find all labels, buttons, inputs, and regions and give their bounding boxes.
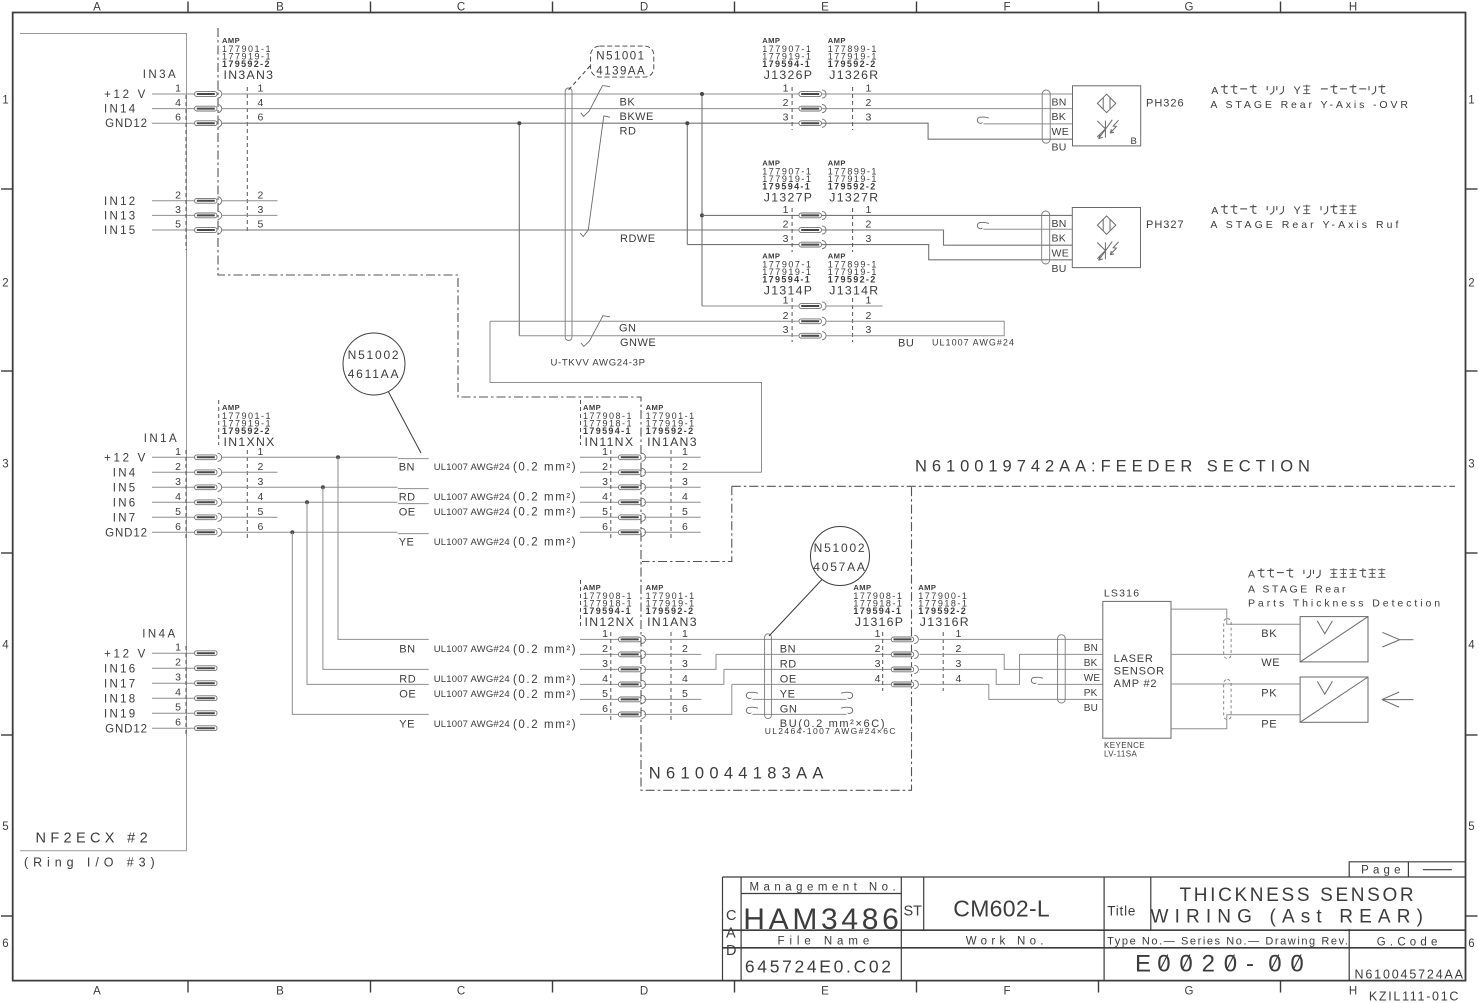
PH327 Japanese description <box>1211 205 1356 218</box>
svg-text:A: A <box>93 986 101 998</box>
wire stub IN13 <box>222 214 278 216</box>
wire J1327 pin3 to PH327 BU <box>687 245 1072 260</box>
svg-text:1: 1 <box>682 446 688 458</box>
connector IN1AN3 (lower) label stack <box>646 583 698 629</box>
harness box notch (dash-dot) <box>642 486 732 561</box>
wire RDWE (IN15) to PH327 WE <box>222 230 1073 245</box>
received beam arrow <box>1382 692 1414 707</box>
svg-text:BU: BU <box>898 338 914 350</box>
svg-text:4: 4 <box>956 673 962 685</box>
svg-text:3: 3 <box>2 458 8 470</box>
svg-text:6: 6 <box>258 112 264 124</box>
svg-text:UL1007 AWG#24: UL1007 AWG#24 <box>434 689 510 700</box>
svg-text:AMP #2: AMP #2 <box>1114 678 1158 690</box>
svg-text:IN1A: IN1A <box>144 433 179 445</box>
svg-text:2: 2 <box>1202 951 1215 978</box>
wire BN to J1316 pin1 <box>644 638 891 640</box>
svg-text:BK: BK <box>1052 111 1067 123</box>
connector IN3AN3 label stack <box>222 36 274 82</box>
cable N51002 4611AA balloon <box>343 333 421 453</box>
svg-text:A STAGE Rear Y-Axis Ruf: A STAGE Rear Y-Axis Ruf <box>1210 219 1401 231</box>
svg-text:1: 1 <box>783 295 789 307</box>
svg-text:3: 3 <box>783 324 789 336</box>
svg-text:A: A <box>93 2 101 14</box>
svg-text:BN: BN <box>1052 218 1067 230</box>
svg-text:(Ring I/O #3): (Ring I/O #3) <box>24 856 160 870</box>
svg-text:(0.2 mm²): (0.2 mm²) <box>513 492 577 504</box>
svg-text:RD: RD <box>399 673 416 685</box>
J1316 cable wire labels <box>765 643 897 735</box>
svg-text:E: E <box>821 986 829 998</box>
LS316 output wire WE <box>1171 654 1300 669</box>
svg-text:5: 5 <box>682 688 688 700</box>
svg-text:RD: RD <box>780 658 797 670</box>
rail IN6 to IN12NX pin4 <box>307 502 429 684</box>
svg-text:PK: PK <box>1261 687 1277 699</box>
connector IN4A dashed separator <box>185 646 187 736</box>
connector J1327 dashed separators <box>792 208 853 252</box>
wire J1314 pin1 stub <box>827 305 883 307</box>
connector IN1A pin contacts <box>195 453 222 536</box>
connector IN1XNX label stack <box>219 400 276 449</box>
svg-text:+12 V: +12 V <box>104 453 148 465</box>
connector J1314 pin numbers <box>783 295 872 337</box>
svg-text:H: H <box>1349 986 1357 998</box>
svg-text:WE: WE <box>1261 657 1280 669</box>
connector IN3A header <box>143 69 178 81</box>
svg-text:IN12: IN12 <box>104 196 138 208</box>
svg-text:6: 6 <box>2 938 8 950</box>
svg-text:1: 1 <box>956 628 962 640</box>
connector J1314R label stack <box>828 251 880 297</box>
svg-text:UL1007 AWG#24: UL1007 AWG#24 <box>434 537 510 548</box>
svg-text:3: 3 <box>682 658 688 670</box>
svg-text:PH327: PH327 <box>1146 219 1185 231</box>
svg-text:GND12: GND12 <box>105 724 148 736</box>
harness boundary N51002-4611AA (dash-dot) <box>218 28 912 790</box>
ruler column letters top <box>93 2 1357 14</box>
svg-text:J1326R: J1326R <box>829 68 879 82</box>
svg-text:3: 3 <box>866 233 872 245</box>
wire J1327 pin1 feed <box>702 214 1072 216</box>
svg-text:Type No.— Series No.— Drawing: Type No.— Series No.— Drawing Rev. <box>1107 936 1349 948</box>
svg-text:6: 6 <box>602 703 608 715</box>
connector IN11NX pin numbers <box>602 446 688 533</box>
svg-text:BN: BN <box>399 643 415 655</box>
cable N51002-4057AA sheath oval <box>765 634 772 719</box>
svg-text:OE: OE <box>399 688 416 700</box>
svg-text:1: 1 <box>682 628 688 640</box>
svg-text:4139AA: 4139AA <box>596 65 646 77</box>
svg-text:E: E <box>821 2 829 14</box>
svg-text:1: 1 <box>175 446 181 458</box>
LS316 maker label KEYENCE LV-11SA <box>1104 741 1145 759</box>
wire RD (IN5) <box>222 485 619 489</box>
svg-text:4: 4 <box>258 97 264 109</box>
svg-text:U-TKVV AWG24-3P: U-TKVV AWG24-3P <box>551 358 646 369</box>
svg-text:G: G <box>1185 2 1194 14</box>
svg-text:(0.2 mm²): (0.2 mm²) <box>513 689 577 701</box>
svg-text:0: 0 <box>1268 951 1281 978</box>
ruler column ticks top <box>188 2 1281 13</box>
svg-text:(0.2 mm²): (0.2 mm²) <box>513 537 577 549</box>
svg-text:UL1007 AWG#24: UL1007 AWG#24 <box>434 674 510 685</box>
connector IN12NX dashed separators <box>611 632 671 721</box>
sensor PH326 reference label <box>1146 98 1185 110</box>
connector IN3A pin numbers <box>175 83 263 231</box>
wire J1314 pin1 feed <box>702 305 799 307</box>
svg-text:D: D <box>726 943 736 959</box>
svg-text:YE: YE <box>399 536 415 548</box>
LS316 reference label <box>1104 587 1140 599</box>
svg-text:IN11NX: IN11NX <box>585 435 635 449</box>
connector J1316R label stack <box>918 583 970 629</box>
PH326 English description <box>1210 99 1410 111</box>
svg-text:N51002: N51002 <box>814 541 867 555</box>
svg-text:+12 V: +12 V <box>104 649 148 661</box>
svg-text:A: A <box>1211 205 1218 217</box>
connector J1327 pin numbers <box>783 204 872 245</box>
svg-text:6: 6 <box>682 703 688 715</box>
svg-text:B: B <box>276 2 284 14</box>
G.Code header <box>1377 937 1442 949</box>
svg-text:A: A <box>726 926 736 942</box>
connector IN12NX pin numbers <box>602 628 688 715</box>
svg-text:4: 4 <box>875 673 881 685</box>
svg-text:3: 3 <box>866 112 872 124</box>
drawing title text <box>1151 885 1430 927</box>
svg-text:OE: OE <box>399 506 416 518</box>
svg-text:IN18: IN18 <box>104 694 138 706</box>
svg-text:4: 4 <box>2 639 9 651</box>
svg-text:1: 1 <box>602 628 608 640</box>
IN1AN3 upper right stubs <box>644 457 762 532</box>
svg-text:2: 2 <box>875 643 881 655</box>
rail IN5 to IN12NX pin3 <box>323 487 429 669</box>
svg-text:IN17: IN17 <box>104 679 138 691</box>
svg-text:IN4: IN4 <box>113 468 138 480</box>
svg-text:WE: WE <box>1052 126 1070 138</box>
svg-text:N610019742AA:FEEDER SECTION: N610019742AA:FEEDER SECTION <box>915 458 1315 476</box>
connector J1316P label stack <box>853 583 904 629</box>
svg-text:RDWE: RDWE <box>620 233 656 245</box>
svg-text:2: 2 <box>258 189 264 201</box>
wire OE jog up into J1316 pin3 <box>644 669 891 684</box>
svg-text:Y: Y <box>1294 85 1302 97</box>
wire J1316 pin3 to LS316 BK <box>920 654 1103 684</box>
rail GND12 to IN12NX pin6 <box>292 532 428 714</box>
svg-text:HAM3486: HAM3486 <box>743 903 902 936</box>
svg-text:YE: YE <box>399 718 415 730</box>
svg-text:D: D <box>640 2 648 14</box>
svg-text:2: 2 <box>258 461 264 473</box>
GND12 rail down to J1327 pin3 <box>685 121 689 244</box>
connector J1327 pin contacts <box>799 211 826 248</box>
svg-text:BK: BK <box>1261 628 1277 640</box>
svg-text:1: 1 <box>175 642 181 654</box>
svg-text:4: 4 <box>175 97 181 109</box>
+12V rail down to J1327/J1314 pin1 <box>700 92 704 306</box>
svg-text:J1316P: J1316P <box>855 615 904 629</box>
svg-text:5: 5 <box>175 702 181 714</box>
svg-text:OE: OE <box>780 673 797 685</box>
svg-text:(0.2 mm²): (0.2 mm²) <box>513 719 577 731</box>
connector J1326 dashed separators <box>792 87 853 130</box>
svg-text:BU: BU <box>1084 703 1099 714</box>
svg-text:3: 3 <box>258 476 264 488</box>
connector J1326P label stack <box>762 36 813 82</box>
svg-text:4: 4 <box>1468 639 1475 651</box>
shield oval PK/PE (dashed) <box>1224 680 1231 720</box>
thickness detection Japanese description <box>1248 568 1385 580</box>
svg-text:WIRING (Ast REAR): WIRING (Ast REAR) <box>1151 906 1430 927</box>
sensor PH327 wire oval <box>1042 211 1050 264</box>
wire J1316 pin4 to LS316 BU <box>920 684 1103 699</box>
svg-text:C: C <box>726 908 736 924</box>
svg-text:A STAGE Rear: A STAGE Rear <box>1248 583 1348 595</box>
FEEDER SECTION boundary (dash-dot) <box>732 485 1455 487</box>
svg-text:3: 3 <box>602 476 608 488</box>
Title cell <box>1107 904 1136 919</box>
LS316 output wire PE <box>1171 715 1300 731</box>
svg-text:6: 6 <box>682 521 688 533</box>
sensor PH326 body <box>1073 86 1141 147</box>
stub IN1AN3 lower pin2 <box>644 653 701 655</box>
cable label U-TKVV AWG24-3P <box>551 358 646 369</box>
sensor PH327 cut wire into BK <box>977 222 1072 229</box>
svg-text:2: 2 <box>783 219 789 231</box>
svg-text:4: 4 <box>175 687 181 699</box>
page box <box>1349 862 1465 877</box>
svg-text:2: 2 <box>783 310 789 322</box>
svg-text:B: B <box>1131 136 1137 147</box>
drawing number E0020-00 <box>1135 951 1304 978</box>
connector IN12NX pin contacts <box>619 635 646 718</box>
svg-text:J1327R: J1327R <box>829 190 879 204</box>
svg-text:2: 2 <box>175 461 181 473</box>
svg-text:N51001: N51001 <box>596 51 645 63</box>
svg-text:BK: BK <box>620 96 636 108</box>
connector J1327R label stack <box>828 158 880 204</box>
connector J1316 pin numbers <box>875 628 962 685</box>
ruler column letters bottom <box>93 986 1357 998</box>
ST cell <box>904 904 923 920</box>
svg-text:LV-11SA: LV-11SA <box>1104 750 1137 759</box>
sensor PH326 wire slot labels <box>1052 96 1070 153</box>
svg-text:IN1AN3: IN1AN3 <box>647 435 698 449</box>
svg-text:6: 6 <box>175 717 181 729</box>
IN12NX left wire resumes <box>580 639 619 714</box>
svg-text:4057AA: 4057AA <box>813 560 866 574</box>
svg-text:B: B <box>276 986 284 998</box>
svg-text:2: 2 <box>175 189 181 201</box>
svg-text:(0.2 mm²): (0.2 mm²) <box>513 674 577 686</box>
connector IN3A signal labels <box>104 89 148 237</box>
connector IN1A header <box>144 433 179 445</box>
wire BN (+12V) IN1A to IN11NX pin1 <box>222 455 619 459</box>
laser sensor amp LS316 body <box>1103 601 1171 738</box>
svg-text:4: 4 <box>258 491 264 503</box>
title block gridlines <box>723 877 1466 981</box>
connector J1314 dashed separators <box>792 298 853 342</box>
connector IN3A pin contacts <box>195 90 222 234</box>
svg-text:1: 1 <box>175 83 181 95</box>
svg-text:3: 3 <box>1468 458 1474 470</box>
svg-text:6: 6 <box>175 521 181 533</box>
svg-text:3: 3 <box>875 658 881 670</box>
svg-text:GNWE: GNWE <box>620 337 656 349</box>
sensor PH327 body <box>1072 208 1140 268</box>
machine type CM602-L <box>953 896 1050 922</box>
svg-text:IN1XNX: IN1XNX <box>224 435 276 449</box>
svg-text:3: 3 <box>175 476 181 488</box>
svg-text:5: 5 <box>258 219 264 231</box>
svg-text:+12 V: +12 V <box>104 89 148 101</box>
wire RD (GND12) with jog to PH326 BU <box>222 123 1073 139</box>
wire label RDWE <box>620 233 656 245</box>
svg-text:1: 1 <box>2 94 8 106</box>
emitted beam arrow <box>1382 632 1413 647</box>
svg-text:File Name: File Name <box>778 936 875 948</box>
svg-text:6: 6 <box>258 521 264 533</box>
svg-text:2: 2 <box>956 643 962 655</box>
svg-text:GND12: GND12 <box>105 528 148 540</box>
svg-text:J1327P: J1327P <box>764 190 813 204</box>
svg-text:E: E <box>1135 951 1151 978</box>
svg-text:IN13: IN13 <box>104 210 138 222</box>
thickness detection English description line2 <box>1248 597 1443 609</box>
svg-text:UL1007 AWG#24: UL1007 AWG#24 <box>434 719 510 730</box>
svg-text:G.Code: G.Code <box>1377 937 1442 949</box>
File Name / Work No. headers <box>778 936 1048 948</box>
svg-text:IN3A: IN3A <box>143 69 178 81</box>
ruler row numbers right <box>1468 94 1475 950</box>
GND12 rail down to GNWE <box>517 121 521 336</box>
svg-text:IN5: IN5 <box>113 483 138 495</box>
svg-text:4: 4 <box>682 491 688 503</box>
connector IN4A pin contacts <box>195 651 217 731</box>
svg-text:IN14: IN14 <box>104 104 138 116</box>
CAD column label <box>726 908 736 959</box>
svg-text:UL1007 AWG#24: UL1007 AWG#24 <box>932 338 1015 348</box>
svg-text:3: 3 <box>783 233 789 245</box>
svg-text:IN4A: IN4A <box>142 629 177 641</box>
svg-text:IN1AN3: IN1AN3 <box>647 615 698 629</box>
svg-text:BK: BK <box>1052 233 1067 245</box>
svg-text:Y: Y <box>1294 205 1302 217</box>
cable N51001 sheath oval <box>565 88 572 341</box>
svg-text:Title: Title <box>1107 904 1136 919</box>
svg-text:1: 1 <box>1468 94 1474 106</box>
ruler row ticks right <box>1466 189 1478 916</box>
svg-text:IN12NX: IN12NX <box>585 615 636 629</box>
connector IN1A signal labels <box>104 453 148 540</box>
svg-text:6: 6 <box>1468 938 1474 950</box>
svg-text:4: 4 <box>682 673 688 685</box>
connector J1314 pin contacts <box>799 302 826 340</box>
N610044183AA harness label <box>649 765 829 783</box>
svg-text:6: 6 <box>602 521 608 533</box>
svg-text:5: 5 <box>682 506 688 518</box>
svg-text:PK: PK <box>1084 688 1098 699</box>
svg-text:SENSOR: SENSOR <box>1114 666 1165 678</box>
svg-text:UL1007 AWG#24: UL1007 AWG#24 <box>434 462 510 473</box>
svg-text:3: 3 <box>258 204 264 216</box>
svg-text:2: 2 <box>602 461 608 473</box>
svg-text:C: C <box>457 986 465 998</box>
connector IN1A pin numbers <box>175 446 263 533</box>
svg-text:N51002: N51002 <box>348 348 401 362</box>
svg-text:5: 5 <box>602 506 608 518</box>
svg-text:BKWE: BKWE <box>620 111 654 123</box>
svg-text:Page: Page <box>1361 865 1405 877</box>
wire OE (IN6) <box>222 500 619 504</box>
connector J1316 dashed separators <box>883 632 944 691</box>
svg-text:WE: WE <box>1084 673 1101 684</box>
svg-text:BN: BN <box>1052 96 1067 108</box>
svg-text:5: 5 <box>2 821 8 833</box>
connector IN12NX label stack <box>581 580 636 629</box>
connector IN4A signal labels <box>104 649 148 736</box>
svg-text:N610044183AA: N610044183AA <box>649 765 829 783</box>
connector J1326 pin numbers <box>783 83 872 124</box>
shield oval BK/WE (dashed) <box>1224 619 1231 659</box>
svg-text:RD: RD <box>399 491 416 503</box>
connector IN4A header <box>142 629 177 641</box>
wire GN into J1314 pin2 <box>490 321 799 334</box>
connector IN11NX dashed separators <box>611 450 671 540</box>
svg-text:IN3AN3: IN3AN3 <box>224 68 275 82</box>
connector J1326R label stack <box>828 36 880 82</box>
wire stubs from NF2ECX to IN1A pins <box>152 457 195 532</box>
svg-text:BN: BN <box>1084 643 1099 654</box>
emitter amp box <box>1300 617 1368 662</box>
IN1A wire color/type labels <box>399 461 578 548</box>
svg-text:(0.2 mm²): (0.2 mm²) <box>513 462 577 474</box>
svg-text:WE: WE <box>1052 247 1070 259</box>
svg-text:ST: ST <box>904 904 923 920</box>
svg-text:J1326P: J1326P <box>764 68 813 82</box>
svg-text:LS316: LS316 <box>1104 587 1140 599</box>
svg-text:D: D <box>640 986 648 998</box>
rail +12V to IN12NX pin1 <box>338 457 429 639</box>
sensor PH326 wire oval <box>1042 90 1050 143</box>
svg-text:F: F <box>1003 2 1010 14</box>
svg-text:6: 6 <box>175 112 181 124</box>
connector IN4A pin numbers <box>175 642 181 729</box>
svg-text:2: 2 <box>682 461 688 473</box>
ruler row ticks left <box>1 189 13 916</box>
svg-text:UL1007 AWG#24: UL1007 AWG#24 <box>434 507 510 518</box>
svg-text:BK: BK <box>1084 658 1098 669</box>
svg-text:1: 1 <box>783 204 789 216</box>
connector IN1A dashed separators <box>186 450 247 540</box>
twisted pair marker GN/GNWE <box>581 316 610 347</box>
spare BU conductor (cut both ends) <box>746 707 852 714</box>
svg-text:3: 3 <box>866 324 872 336</box>
svg-text:BU: BU <box>1052 141 1067 153</box>
G code value N610045724AA <box>1355 967 1465 981</box>
file name value <box>745 957 894 977</box>
svg-text:IN19: IN19 <box>104 709 138 721</box>
connector IN3A dashed separators <box>186 87 247 250</box>
svg-text:G: G <box>1185 986 1194 998</box>
PH326 Japanese description <box>1211 85 1385 98</box>
wire GN feed from IN1AN3 pin2 (up-and-over) <box>490 321 762 472</box>
svg-text:KZIL111-01C: KZIL111-01C <box>1369 990 1460 1003</box>
wire YE (GND12) <box>222 530 619 534</box>
twisted pair marker RD/RDWE <box>580 116 610 237</box>
